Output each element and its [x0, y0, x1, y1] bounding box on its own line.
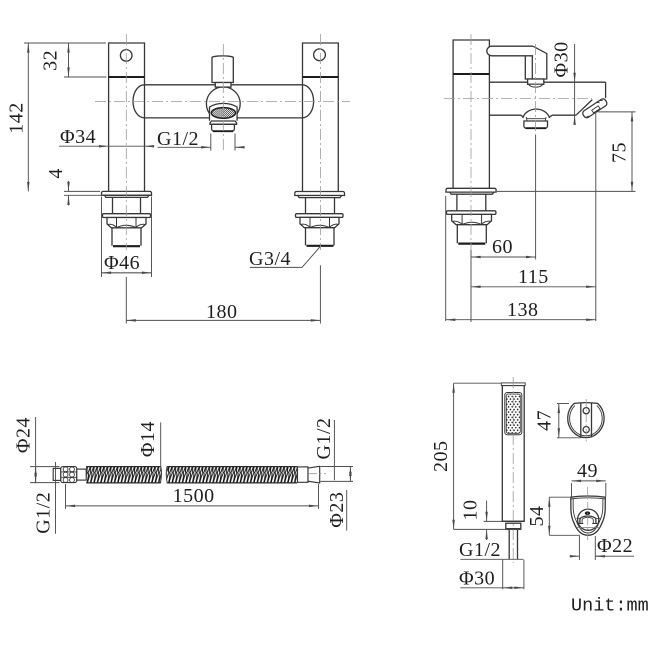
- right shank: [306, 198, 335, 214]
- diverter centerline: [222, 44, 224, 152]
- dim 32: [64, 43, 107, 77]
- HOSE: [53, 466, 326, 483]
- cartridge collar: [528, 79, 544, 84]
- diverter shroud: [210, 103, 238, 120]
- spout nozzle: [582, 98, 608, 119]
- dim 205: [454, 383, 521, 529]
- dim phi24: [30, 417, 60, 483]
- lower flange: [447, 211, 496, 215]
- svg-text:G1/2: G1/2: [459, 539, 501, 561]
- bottom bracket inner bottom line: [577, 527, 601, 529]
- flange lip: [450, 192, 494, 194]
- front view centerlines: [95, 34, 350, 250]
- dim 1500: [66, 484, 319, 509]
- pillar centerline: [470, 34, 472, 250]
- svg-text:75: 75: [609, 142, 631, 163]
- svg-text:Φ34: Φ34: [60, 126, 96, 148]
- HANDSET: [501, 377, 525, 563]
- dim 10: [484, 501, 503, 541]
- clip feet: [579, 523, 598, 525]
- svg-text:205: 205: [430, 440, 452, 472]
- dim phi30 handset: [460, 560, 524, 590]
- svg-text:Φ46: Φ46: [104, 252, 140, 274]
- svg-text:Φ22: Φ22: [597, 535, 633, 557]
- svg-text:G1/2: G1/2: [157, 128, 199, 150]
- SIDE VIEW: [446, 40, 608, 244]
- dim 4: [64, 181, 103, 206]
- spout cut line: [576, 100, 592, 116]
- clip screw dot: [585, 511, 590, 515]
- hose dim texts: [13, 417, 349, 534]
- handset dimensions: [454, 383, 524, 589]
- diverter ball: [206, 87, 240, 121]
- G1/2 underline leader: [460, 558, 523, 560]
- hex nut: [452, 214, 492, 224]
- top bracket outer: [568, 403, 604, 438]
- dim 49: [572, 481, 606, 497]
- side view centerlines: [444, 34, 592, 250]
- aerator mesh: [211, 108, 235, 119]
- left nut: [61, 467, 77, 483]
- clip arch outer: [580, 516, 596, 524]
- dim 60: [471, 135, 536, 322]
- right pillar: [303, 43, 339, 191]
- cartridge inner line: [531, 56, 533, 79]
- front view dimensions: [24, 43, 320, 324]
- left pillar centerline: [125, 34, 127, 250]
- left ferrule: [77, 469, 86, 480]
- handle centerline: [535, 44, 537, 135]
- tail bottom edge: [458, 243, 485, 245]
- right flange lip: [298, 196, 342, 198]
- clip arch inner: [582, 517, 593, 523]
- bottom bracket outer: [571, 496, 606, 535]
- left threaded tail: [112, 228, 141, 246]
- FRONT VIEW: [102, 43, 345, 246]
- svg-text:1500: 1500: [173, 485, 215, 507]
- shank: [457, 194, 486, 211]
- svg-text:G3/4: G3/4: [249, 248, 291, 270]
- bracket dimensions: [549, 404, 634, 561]
- handset centerline: [512, 377, 514, 563]
- top bracket centerline: [585, 399, 587, 443]
- svg-text:G1/2: G1/2: [313, 418, 335, 460]
- right lower flange: [296, 214, 344, 218]
- spout centerline: [444, 97, 592, 99]
- left tail bottom edge: [113, 245, 140, 247]
- left pillar hole: [120, 50, 132, 62]
- svg-text:138: 138: [507, 299, 539, 321]
- right tube end cap arc: [302, 85, 313, 118]
- body bottom line: [489, 114, 576, 116]
- dim 75: [497, 112, 636, 191]
- handset dim texts: [430, 440, 501, 589]
- handset top cap: [501, 383, 525, 386]
- front view dim texts: [6, 50, 291, 323]
- pillar: [453, 40, 489, 189]
- ring bottom edge: [526, 127, 547, 129]
- outlet ring: [212, 124, 235, 131]
- handset bottom line: [502, 520, 524, 522]
- threaded tail: [457, 225, 486, 243]
- body top line: [489, 81, 605, 83]
- svg-text:Φ30: Φ30: [551, 41, 573, 77]
- clip cross ticks: [576, 517, 600, 519]
- svg-text:G1/2: G1/2: [33, 492, 55, 534]
- dome neck: [526, 117, 546, 121]
- left pillar: [109, 43, 145, 191]
- dim 138: [446, 196, 596, 321]
- outlet ring (side): [524, 121, 548, 128]
- outlet ring bottom edge: [213, 130, 233, 132]
- svg-text:115: 115: [518, 266, 549, 288]
- svg-text:Φ23: Φ23: [326, 492, 348, 528]
- flange plate: [446, 188, 496, 192]
- bottom bracket clip circle: [578, 509, 599, 530]
- right cone: [308, 466, 320, 483]
- collar dome: [529, 84, 543, 87]
- dim 54: [549, 497, 580, 535]
- dim phi23: [321, 466, 354, 530]
- body tube: [133, 85, 314, 118]
- hose dimensions: [30, 417, 353, 534]
- svg-text:32: 32: [40, 50, 62, 71]
- G1/2 right leader: [333, 420, 335, 480]
- right ferrule: [298, 467, 309, 482]
- svg-text:Unit:mm: Unit:mm: [571, 596, 649, 617]
- left flange lip: [105, 195, 149, 197]
- bottom bracket top rim: [571, 498, 605, 499]
- nozzle bottom edge: [507, 528, 521, 530]
- outlet flange: [210, 121, 237, 124]
- spout right edge: [605, 82, 607, 98]
- bottom bracket inner: [573, 498, 603, 533]
- handset nozzle: [506, 523, 521, 529]
- cartridge sleeve: [525, 46, 547, 79]
- left shank: [113, 197, 141, 213]
- lever rod: [487, 46, 533, 56]
- left tube end cap arc: [133, 85, 144, 118]
- knob collar: [215, 83, 231, 88]
- hose braid right segment: [166, 467, 297, 483]
- G1/2 left leader: [55, 462, 57, 534]
- dim phi46: [102, 197, 152, 278]
- svg-text:54: 54: [526, 506, 548, 527]
- side view dim texts: [492, 41, 631, 321]
- hose braid left segment: [86, 467, 161, 483]
- dim 47: [557, 404, 582, 438]
- right pillar centerline: [319, 34, 321, 250]
- svg-text:142: 142: [6, 102, 28, 134]
- svg-text:Φ24: Φ24: [13, 417, 35, 453]
- left lower flange: [103, 214, 151, 218]
- left flange plate: [102, 191, 152, 195]
- svg-text:49: 49: [577, 460, 598, 482]
- side view dimensions: [446, 44, 636, 322]
- handset body: [502, 386, 524, 522]
- dim 142: [24, 43, 106, 192]
- dim 115: [471, 112, 596, 322]
- right flange plate: [295, 192, 345, 196]
- top bracket inner: [570, 406, 603, 436]
- top bracket screw holes: [583, 408, 589, 433]
- right threaded tail: [306, 228, 335, 246]
- bottom bracket centerline: [587, 487, 589, 540]
- svg-text:4: 4: [45, 168, 67, 179]
- dim phi14 leader: [160, 422, 162, 469]
- tube centerline: [95, 101, 350, 103]
- left thread stub: [53, 468, 61, 480]
- BRACKETS: [568, 399, 606, 540]
- dim phi30 spout: [574, 44, 576, 123]
- svg-text:60: 60: [492, 236, 513, 258]
- right pillar hole: [314, 49, 326, 61]
- hose center dash: [309, 473, 326, 475]
- svg-text:47: 47: [534, 410, 556, 431]
- svg-text:10: 10: [460, 500, 482, 521]
- diverter dome (side): [521, 109, 552, 117]
- spray plate: [505, 393, 522, 435]
- right tail bottom edge: [307, 245, 334, 247]
- left hex nut: [107, 218, 146, 228]
- diverter knob: [212, 56, 233, 83]
- top bracket strap: [581, 404, 592, 438]
- dim G1/2: [158, 134, 244, 151]
- svg-text:Φ14: Φ14: [137, 421, 159, 457]
- right hex nut: [300, 217, 339, 227]
- dim 180: [126, 265, 320, 323]
- svg-text:Φ30: Φ30: [459, 568, 495, 590]
- dim phi34 leader: [59, 145, 153, 147]
- outlet tube: [509, 529, 517, 559]
- svg-text:180: 180: [206, 301, 238, 323]
- bracket dim texts: [526, 410, 633, 557]
- dim phi22: [571, 536, 634, 560]
- dim G3/4 leader: [250, 247, 320, 268]
